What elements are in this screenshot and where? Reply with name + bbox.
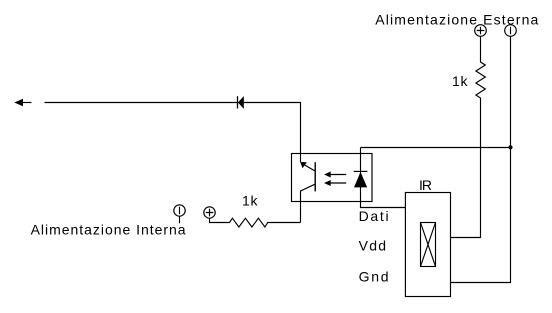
svg-text:Vdd: Vdd: [359, 237, 387, 253]
svg-text:Alimentazione Esterna: Alimentazione Esterna: [375, 12, 538, 28]
svg-text:Gnd: Gnd: [359, 268, 389, 284]
svg-text:IR: IR: [419, 177, 432, 193]
svg-text:Alimentazione Interna: Alimentazione Interna: [31, 221, 186, 237]
svg-text:1k: 1k: [452, 73, 469, 89]
svg-text:1k: 1k: [242, 192, 259, 208]
